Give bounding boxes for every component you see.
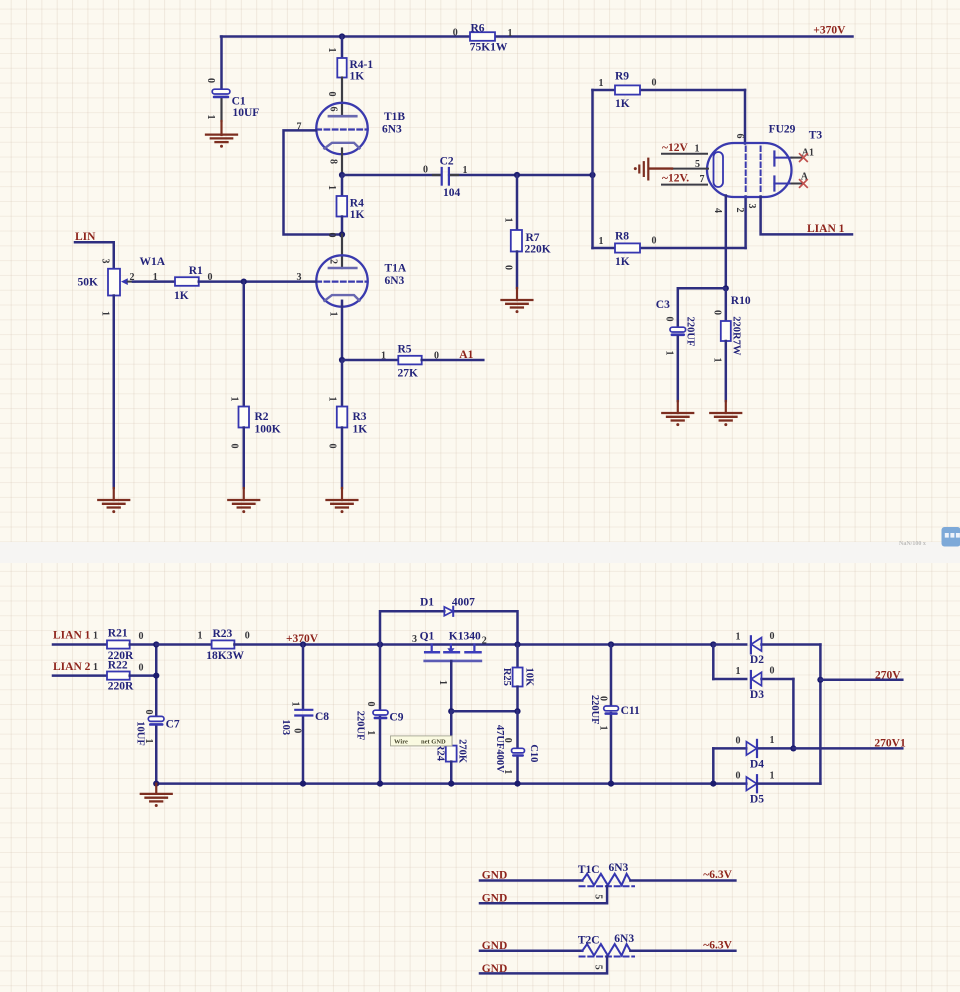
node C11 top tee	[608, 641, 614, 647]
svg-text:FU29: FU29	[769, 124, 796, 136]
svg-text:T1B: T1B	[384, 111, 405, 123]
svg-text:W1A: W1A	[140, 256, 166, 268]
wire C8 branch	[302, 645, 305, 710]
svg-text:1: 1	[327, 397, 338, 402]
svg-text:5: 5	[592, 965, 603, 970]
wire node to R7	[516, 175, 519, 230]
svg-text:R7: R7	[526, 232, 540, 244]
svg-text:D3: D3	[750, 689, 764, 701]
svg-text:C2: C2	[440, 156, 454, 168]
resistor R2	[229, 397, 281, 449]
wire FU29 pin4 down	[725, 196, 728, 289]
ground under R10	[710, 413, 741, 426]
svg-text:1: 1	[289, 702, 300, 707]
resistor R22	[107, 659, 144, 692]
node R4/feedback/T1A plate	[339, 231, 345, 237]
node C8/rail	[300, 781, 306, 787]
svg-text:0: 0	[365, 702, 376, 707]
resistor R4	[326, 185, 365, 238]
no-connect X on A	[800, 180, 808, 188]
wire left vertical C7 chain	[155, 645, 158, 717]
svg-text:0: 0	[326, 92, 337, 97]
resistor R25	[501, 668, 535, 688]
svg-text:1: 1	[326, 185, 337, 190]
svg-text:R4-1: R4-1	[350, 59, 374, 71]
diode D4	[736, 735, 775, 770]
svg-text:1: 1	[93, 662, 98, 673]
svg-text:R6: R6	[471, 23, 485, 35]
wire R10 to ground	[725, 341, 728, 401]
resistor R1	[153, 265, 213, 302]
svg-text:1: 1	[736, 632, 741, 643]
svg-text:A1: A1	[459, 349, 473, 361]
node C7/rail/ground	[153, 781, 159, 787]
transformer winding T1C	[578, 862, 634, 899]
wire R25 to mid node	[516, 687, 519, 712]
svg-text:R5: R5	[398, 344, 412, 356]
wire R5 to A1	[422, 359, 484, 362]
svg-text:0: 0	[327, 444, 338, 449]
wire FU29 pin3 to LIAN 1	[761, 197, 852, 235]
svg-text:1: 1	[599, 78, 604, 89]
node rail/R4-1 junction	[339, 33, 345, 39]
wire mid row	[451, 710, 517, 713]
svg-text:R23: R23	[213, 628, 233, 640]
ground left of FU29 pin5	[634, 159, 672, 180]
svg-text:5: 5	[695, 159, 700, 170]
svg-text:0: 0	[503, 265, 514, 270]
node bridge top left	[710, 641, 716, 647]
node 270V tee	[817, 677, 823, 683]
wire pot wiper to R1	[133, 280, 175, 283]
capacitor C8	[280, 702, 329, 736]
svg-text:0: 0	[597, 696, 608, 701]
svg-text:K1340: K1340	[449, 631, 481, 643]
ground under R2	[228, 500, 259, 513]
node C2 row / R9R8 ladder	[589, 172, 595, 178]
wire R9 leads	[593, 89, 616, 92]
wire node to C3	[678, 288, 726, 327]
svg-text:0: 0	[139, 631, 144, 642]
wire R9-R8 vertical	[591, 90, 594, 248]
wire R25 branch	[516, 645, 519, 668]
svg-text:+370V: +370V	[813, 25, 846, 37]
svg-text:0: 0	[326, 233, 337, 238]
node R25/C10	[514, 708, 520, 714]
svg-text:R21: R21	[108, 628, 128, 640]
svg-text:T2C: T2C	[578, 934, 600, 946]
wire D4 leads	[713, 747, 746, 750]
resistor R6	[453, 23, 513, 54]
wire node to R5	[342, 359, 398, 362]
svg-text:0: 0	[652, 78, 657, 89]
node gate/mid	[448, 708, 454, 714]
ground under W1A	[98, 500, 129, 513]
svg-text:D2: D2	[750, 654, 764, 666]
svg-text:6N3: 6N3	[614, 933, 634, 945]
node D4 branch/rail	[710, 781, 716, 787]
svg-text:10K: 10K	[524, 668, 535, 688]
pin T1A plate	[341, 235, 343, 269]
no-connect X on A1	[800, 154, 808, 162]
watermark icon	[899, 527, 960, 547]
svg-text:1: 1	[664, 351, 675, 356]
ground under R3	[327, 500, 358, 513]
resistor R4-1	[326, 48, 373, 97]
resistor R7	[503, 218, 551, 271]
pin FU29 A lead	[792, 183, 804, 185]
svg-text:1K: 1K	[615, 256, 630, 268]
svg-text:1: 1	[143, 739, 154, 744]
svg-text:6: 6	[328, 107, 339, 112]
wire T1C to ~6.3V	[630, 879, 735, 882]
wire R7 to ground	[516, 252, 519, 289]
resistor R21	[107, 628, 144, 662]
node C8 tee	[300, 641, 306, 647]
svg-text:C3: C3	[656, 299, 670, 311]
svg-text:10UF: 10UF	[233, 107, 260, 119]
svg-text:R1: R1	[189, 265, 203, 277]
svg-text:1: 1	[770, 735, 775, 746]
node pin4/C3/R10	[723, 285, 729, 291]
wire R1 to grid node	[199, 280, 244, 283]
svg-text:1: 1	[736, 666, 741, 677]
svg-text:0: 0	[245, 631, 250, 642]
svg-text:R2: R2	[255, 411, 269, 423]
wire R4 to plate node	[341, 217, 344, 235]
svg-text:T1C: T1C	[578, 864, 600, 876]
capacitor C1	[205, 78, 259, 120]
capacitor C7	[135, 710, 180, 746]
svg-text:Q1: Q1	[420, 631, 435, 643]
pin FU29 1	[662, 153, 707, 155]
wire GND tap T1C	[480, 886, 607, 903]
wire R22 to node	[130, 674, 157, 677]
wire Q1 gate down	[450, 661, 453, 711]
node R1/grid/R2	[241, 279, 247, 285]
ground under R7	[502, 300, 533, 313]
svg-text:0: 0	[652, 236, 657, 247]
tube FU29 T3	[707, 124, 822, 214]
node R21/R23/C7	[153, 641, 159, 647]
svg-text:6N3: 6N3	[609, 862, 629, 874]
wire bridge left vertical to D3	[712, 645, 715, 680]
wire node to R10	[725, 288, 728, 321]
svg-text:1: 1	[381, 351, 386, 362]
svg-text:0: 0	[229, 444, 240, 449]
svg-text:3: 3	[412, 634, 417, 645]
svg-text:1: 1	[229, 397, 240, 402]
svg-text:1: 1	[365, 730, 376, 735]
node D3/D4/270V1	[790, 745, 796, 751]
wire R24 to rail	[450, 762, 453, 784]
svg-text:1: 1	[503, 218, 514, 223]
svg-text:220UF: 220UF	[685, 317, 696, 347]
svg-text:1K: 1K	[615, 98, 630, 110]
mosfet Q1 K1340	[412, 631, 487, 661]
wire R2 to ground	[243, 428, 246, 489]
wire rail to R4-1	[341, 37, 344, 59]
svg-text:~12V: ~12V	[662, 142, 688, 154]
triode T1B	[297, 103, 406, 164]
svg-text:C10: C10	[528, 744, 539, 762]
svg-text:R25: R25	[501, 668, 512, 686]
svg-text:1: 1	[99, 311, 110, 316]
svg-text:~6.3V: ~6.3V	[703, 939, 732, 951]
node C9/D1 tee	[377, 641, 383, 647]
svg-text:1: 1	[326, 48, 337, 53]
svg-text:0: 0	[712, 310, 723, 315]
svg-text:220K: 220K	[525, 244, 551, 256]
svg-text:1K: 1K	[353, 424, 368, 436]
svg-text:C8: C8	[315, 711, 329, 723]
svg-text:1: 1	[93, 631, 98, 642]
node C11/rail	[608, 781, 614, 787]
svg-text:R10: R10	[731, 295, 751, 307]
wire C10 branch	[516, 711, 519, 748]
resistor R8	[599, 231, 657, 269]
svg-text:0: 0	[770, 666, 775, 677]
svg-text:0: 0	[736, 771, 741, 782]
svg-text:1: 1	[597, 726, 608, 731]
wire T1B grid feedback	[284, 130, 343, 234]
svg-text:2: 2	[734, 208, 745, 213]
pin FU29 7	[662, 184, 707, 186]
svg-text:2: 2	[482, 636, 487, 647]
wire R21 to node	[130, 643, 157, 646]
wire R23 row from node	[156, 643, 211, 646]
wire T1A grid row	[244, 280, 316, 283]
svg-text:R22: R22	[108, 659, 128, 671]
svg-text:1: 1	[463, 165, 468, 176]
svg-text:270V: 270V	[875, 669, 901, 681]
svg-text:R9: R9	[615, 71, 629, 83]
svg-text:1: 1	[198, 631, 203, 642]
wire D5 to right vertical	[757, 782, 820, 785]
svg-text:220R: 220R	[108, 681, 134, 693]
svg-text:D1: D1	[420, 597, 434, 609]
svg-text:R3: R3	[353, 411, 367, 423]
wire R3 to ground	[341, 428, 344, 489]
resistor R23	[198, 628, 250, 662]
svg-text:1: 1	[328, 312, 339, 317]
wire bridge right vertical	[819, 645, 822, 784]
wire T2C to ~6.3V	[630, 950, 735, 953]
svg-text:T1A: T1A	[385, 263, 407, 275]
node C10/rail	[514, 781, 520, 787]
resistor R9	[599, 71, 657, 111]
svg-text:1: 1	[770, 770, 775, 781]
svg-text:1: 1	[712, 358, 723, 363]
wire grid node down to R2	[243, 282, 246, 407]
svg-text:NaN/100 x: NaN/100 x	[899, 541, 926, 547]
svg-text:1: 1	[437, 680, 448, 685]
svg-text:R4: R4	[350, 198, 364, 210]
svg-text:C11: C11	[621, 705, 640, 717]
diode D1	[420, 597, 475, 616]
svg-text:2: 2	[328, 259, 339, 264]
svg-text:0: 0	[736, 735, 741, 746]
node cathode/C2/R4	[339, 172, 345, 178]
wire +370V rail psu	[234, 643, 713, 646]
svg-text:3: 3	[99, 259, 110, 264]
svg-text:C1: C1	[232, 96, 246, 108]
svg-text:6N3: 6N3	[382, 124, 402, 136]
wire D3 leads	[713, 678, 746, 681]
svg-text:1: 1	[695, 144, 700, 155]
svg-text:4: 4	[712, 208, 723, 213]
diode D5	[736, 770, 775, 805]
svg-text:0: 0	[292, 728, 303, 733]
diode D2	[736, 631, 775, 666]
svg-text:0: 0	[664, 317, 675, 322]
svg-text:18K3W: 18K3W	[206, 650, 244, 662]
svg-text:1: 1	[153, 272, 158, 283]
svg-text:27K: 27K	[398, 368, 419, 380]
diode D3	[736, 666, 775, 701]
svg-text:D4: D4	[750, 758, 764, 770]
wire R24 branch	[450, 711, 453, 745]
node cathode/R5/R3	[339, 357, 345, 363]
svg-text:net GND: net GND	[421, 738, 446, 745]
svg-text:5: 5	[592, 894, 603, 899]
svg-text:6N3: 6N3	[385, 275, 405, 287]
wire node to R3	[341, 360, 344, 407]
svg-text:0: 0	[423, 165, 428, 176]
svg-text:0: 0	[143, 710, 154, 715]
wire GND to T1C winding	[480, 879, 582, 882]
wire R8 to FU29 pin2	[744, 197, 747, 249]
svg-text:Wire: Wire	[394, 738, 408, 745]
wire 270V	[820, 679, 902, 682]
svg-text:270V1: 270V1	[874, 738, 906, 750]
svg-text:~6.3V: ~6.3V	[703, 869, 732, 881]
svg-text:1: 1	[508, 28, 513, 39]
triode T1A	[297, 255, 407, 316]
wire D1 loop	[380, 611, 518, 644]
wire D2 leads	[713, 643, 746, 646]
wire C2 node to R4	[341, 175, 344, 196]
svg-text:6: 6	[734, 134, 745, 139]
wire D4 branch up from rail	[712, 748, 715, 783]
svg-text:1K: 1K	[350, 209, 365, 221]
wire R9 to FU29 pin6	[744, 90, 747, 144]
node C2/R7	[514, 172, 520, 178]
wire LIAN2 to R22	[53, 674, 107, 677]
resistor R5	[381, 344, 439, 380]
resistor R10	[712, 295, 751, 363]
transformer winding T2C	[578, 933, 634, 970]
svg-text:1K: 1K	[350, 71, 365, 83]
wire GND tap T2C	[480, 957, 607, 974]
svg-text:C9: C9	[389, 712, 403, 724]
svg-text:LIAN 1: LIAN 1	[53, 630, 91, 642]
wire ground rail psu	[156, 782, 746, 785]
svg-text:47UF400V: 47UF400V	[494, 725, 505, 773]
resistor R24	[435, 739, 468, 764]
wire D3 down to D4 node	[792, 679, 795, 748]
tooltip Wire net GND	[391, 736, 453, 746]
wire C9 branch	[379, 645, 382, 711]
node R25/D1 on rail	[514, 641, 520, 647]
capacitor C9	[354, 702, 403, 741]
svg-text:220R7W: 220R7W	[730, 316, 741, 356]
svg-text:8: 8	[328, 159, 339, 164]
pin R4-1 to T1B plate	[341, 78, 343, 117]
wire C2 to R9/R8 ladder	[450, 174, 593, 177]
wire T1B cathode down	[341, 149, 343, 176]
svg-text:270K: 270K	[456, 739, 467, 764]
SECTION-TOP	[75, 23, 853, 514]
wire pot bottom to ground	[113, 296, 116, 489]
wire LIAN1 to R21	[53, 643, 107, 646]
wire LIN to pot	[75, 242, 114, 269]
svg-text:103: 103	[280, 719, 291, 735]
wire cathode row to C2	[342, 174, 441, 177]
svg-text:T3: T3	[809, 130, 823, 142]
svg-text:1K: 1K	[174, 290, 189, 302]
wire C3 to ground	[677, 337, 680, 402]
wire T1A cathode down	[341, 301, 344, 360]
wire 270V1	[793, 747, 902, 750]
svg-text:75K1W: 75K1W	[470, 42, 508, 54]
svg-text:1: 1	[205, 115, 216, 120]
svg-text:3: 3	[746, 204, 757, 209]
SECTION-BOTTOM	[53, 597, 906, 975]
svg-text:7: 7	[700, 174, 705, 185]
wire C11 branch	[610, 645, 613, 707]
capacitor C10	[494, 725, 539, 774]
svg-text:1: 1	[599, 236, 604, 247]
node C9/rail	[377, 781, 383, 787]
wire C1 branch drop	[220, 37, 223, 90]
pin FU29 A1 lead	[792, 157, 804, 159]
ground under C3	[662, 413, 693, 426]
svg-text:D5: D5	[750, 794, 764, 806]
svg-text:0: 0	[453, 28, 458, 39]
wire +370V top rail	[221, 35, 853, 38]
svg-text:LIAN 2: LIAN 2	[53, 661, 91, 673]
svg-text:4007: 4007	[452, 597, 475, 609]
svg-text:~12V.: ~12V.	[662, 173, 689, 185]
potentiometer W1A	[78, 256, 166, 316]
svg-text:C7: C7	[166, 719, 180, 731]
svg-text:R8: R8	[615, 231, 629, 243]
svg-text:104: 104	[443, 187, 461, 199]
capacitor C3	[656, 299, 696, 356]
wire GND to T2C winding	[480, 950, 582, 953]
resistor R3	[327, 397, 368, 449]
capacitor C2	[423, 156, 468, 200]
svg-text:50K: 50K	[78, 277, 99, 289]
wire R8 leads	[593, 247, 616, 250]
capacitor C11	[589, 695, 640, 731]
svg-text:100K: 100K	[255, 424, 281, 436]
pin FU29 5	[672, 168, 708, 170]
svg-text:LIAN 1: LIAN 1	[807, 223, 845, 235]
node R22 tee	[153, 673, 159, 679]
ground under psu rail	[141, 784, 172, 807]
svg-text:220UF: 220UF	[354, 711, 365, 741]
node R24/rail	[448, 781, 454, 787]
ground under C1	[206, 135, 237, 148]
svg-text:0: 0	[770, 631, 775, 642]
svg-text:0: 0	[205, 78, 216, 83]
svg-text:0: 0	[139, 662, 144, 673]
wire C1 to ground stem	[220, 98, 222, 121]
